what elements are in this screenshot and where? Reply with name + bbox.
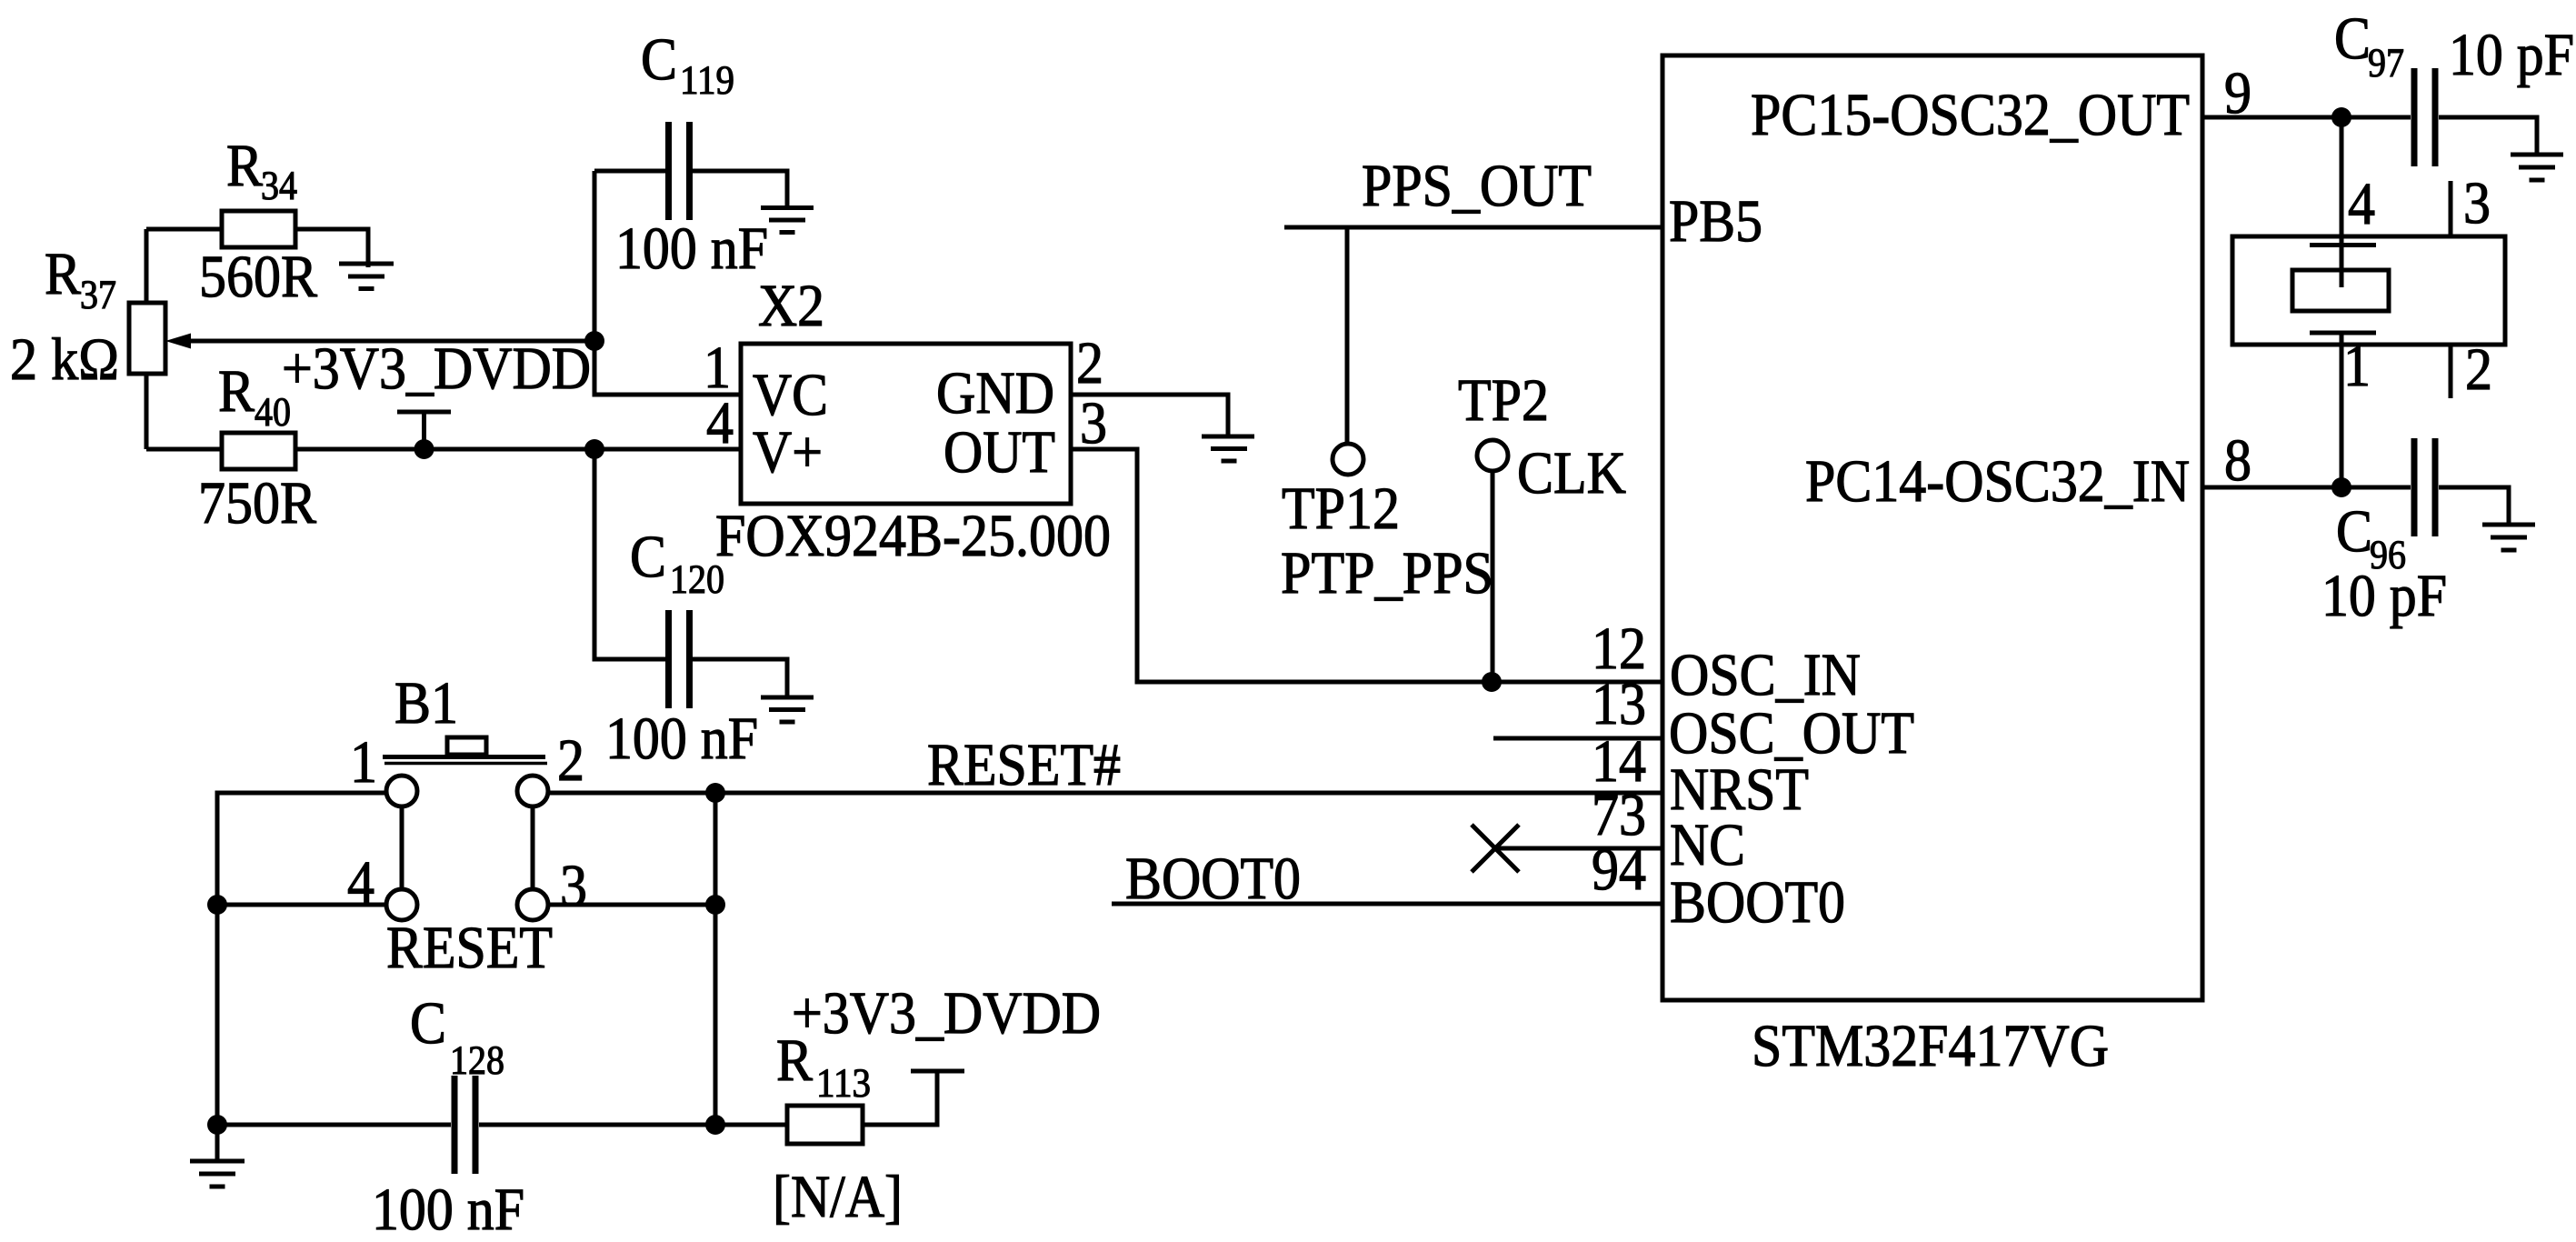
svg-text:C: C: [2334, 5, 2371, 72]
svg-text:OSC_IN: OSC_IN: [1670, 642, 1861, 708]
svg-text:PB5: PB5: [1669, 188, 1762, 255]
svg-text:4: 4: [2348, 171, 2375, 237]
svg-text:3: 3: [1080, 390, 1107, 456]
svg-text:R: R: [776, 1027, 813, 1094]
svg-text:10 pF: 10 pF: [2449, 22, 2574, 88]
svg-text:R: R: [226, 133, 263, 199]
svg-text:97: 97: [2368, 40, 2404, 85]
svg-text:PTP_PPS: PTP_PPS: [1281, 540, 1493, 606]
svg-text:+3V3_DVDD: +3V3_DVDD: [282, 336, 591, 402]
svg-text:34: 34: [261, 163, 297, 208]
svg-text:CLK: CLK: [1517, 440, 1626, 506]
svg-text:B1: B1: [394, 670, 458, 736]
svg-text:C: C: [641, 26, 677, 93]
svg-text:94: 94: [1592, 836, 1646, 903]
svg-text:R: R: [45, 241, 81, 307]
svg-text:100 nF: 100 nF: [605, 706, 758, 772]
svg-text:4: 4: [706, 390, 734, 456]
svg-text:2 kΩ: 2 kΩ: [10, 326, 119, 393]
svg-text:BOOT0: BOOT0: [1670, 869, 1845, 936]
svg-text:1: 1: [2343, 333, 2371, 399]
svg-text:113: 113: [816, 1060, 871, 1106]
svg-text:PC15-OSC32_OUT: PC15-OSC32_OUT: [1751, 82, 2190, 148]
svg-text:X2: X2: [758, 273, 824, 339]
svg-text:119: 119: [680, 57, 734, 103]
svg-text:GND: GND: [936, 360, 1054, 426]
svg-text:FOX924B-25.000: FOX924B-25.000: [715, 503, 1111, 569]
svg-text:1: 1: [350, 729, 377, 796]
svg-text:C: C: [410, 990, 446, 1057]
svg-text:PC14-OSC32_IN: PC14-OSC32_IN: [1805, 448, 2190, 515]
svg-text:8: 8: [2224, 427, 2252, 494]
svg-text:2: 2: [1076, 330, 1103, 396]
svg-text:PPS_OUT: PPS_OUT: [1362, 153, 1592, 219]
svg-text:560R: 560R: [199, 244, 317, 310]
svg-text:2: 2: [2465, 336, 2492, 403]
svg-text:3: 3: [2463, 170, 2491, 236]
svg-text:9: 9: [2224, 60, 2252, 126]
svg-text:750R: 750R: [198, 470, 316, 536]
svg-text:TP12: TP12: [1282, 476, 1400, 542]
svg-text:OUT: OUT: [944, 419, 1055, 486]
svg-text:V+: V+: [753, 419, 823, 486]
svg-text:TP2: TP2: [1458, 367, 1549, 434]
svg-text:C: C: [2336, 498, 2372, 565]
svg-text:4: 4: [347, 849, 374, 916]
svg-text:2: 2: [557, 727, 584, 794]
svg-text:+3V3_DVDD: +3V3_DVDD: [792, 980, 1101, 1047]
svg-text:128: 128: [450, 1037, 504, 1083]
svg-text:37: 37: [80, 272, 116, 317]
svg-text:100 nF: 100 nF: [372, 1177, 524, 1242]
svg-text:R: R: [218, 358, 255, 425]
svg-text:120: 120: [670, 556, 724, 602]
svg-text:10 pF: 10 pF: [2321, 563, 2447, 629]
svg-text:RESET#: RESET#: [927, 732, 1121, 798]
svg-text:STM32F417VG: STM32F417VG: [1752, 1013, 2109, 1079]
svg-text:RESET: RESET: [386, 915, 553, 981]
svg-text:C: C: [630, 524, 666, 590]
svg-text:3: 3: [560, 853, 587, 919]
svg-text:100 nF: 100 nF: [615, 215, 768, 282]
svg-text:BOOT0: BOOT0: [1125, 846, 1301, 912]
svg-text:[N/A]: [N/A]: [773, 1164, 903, 1230]
